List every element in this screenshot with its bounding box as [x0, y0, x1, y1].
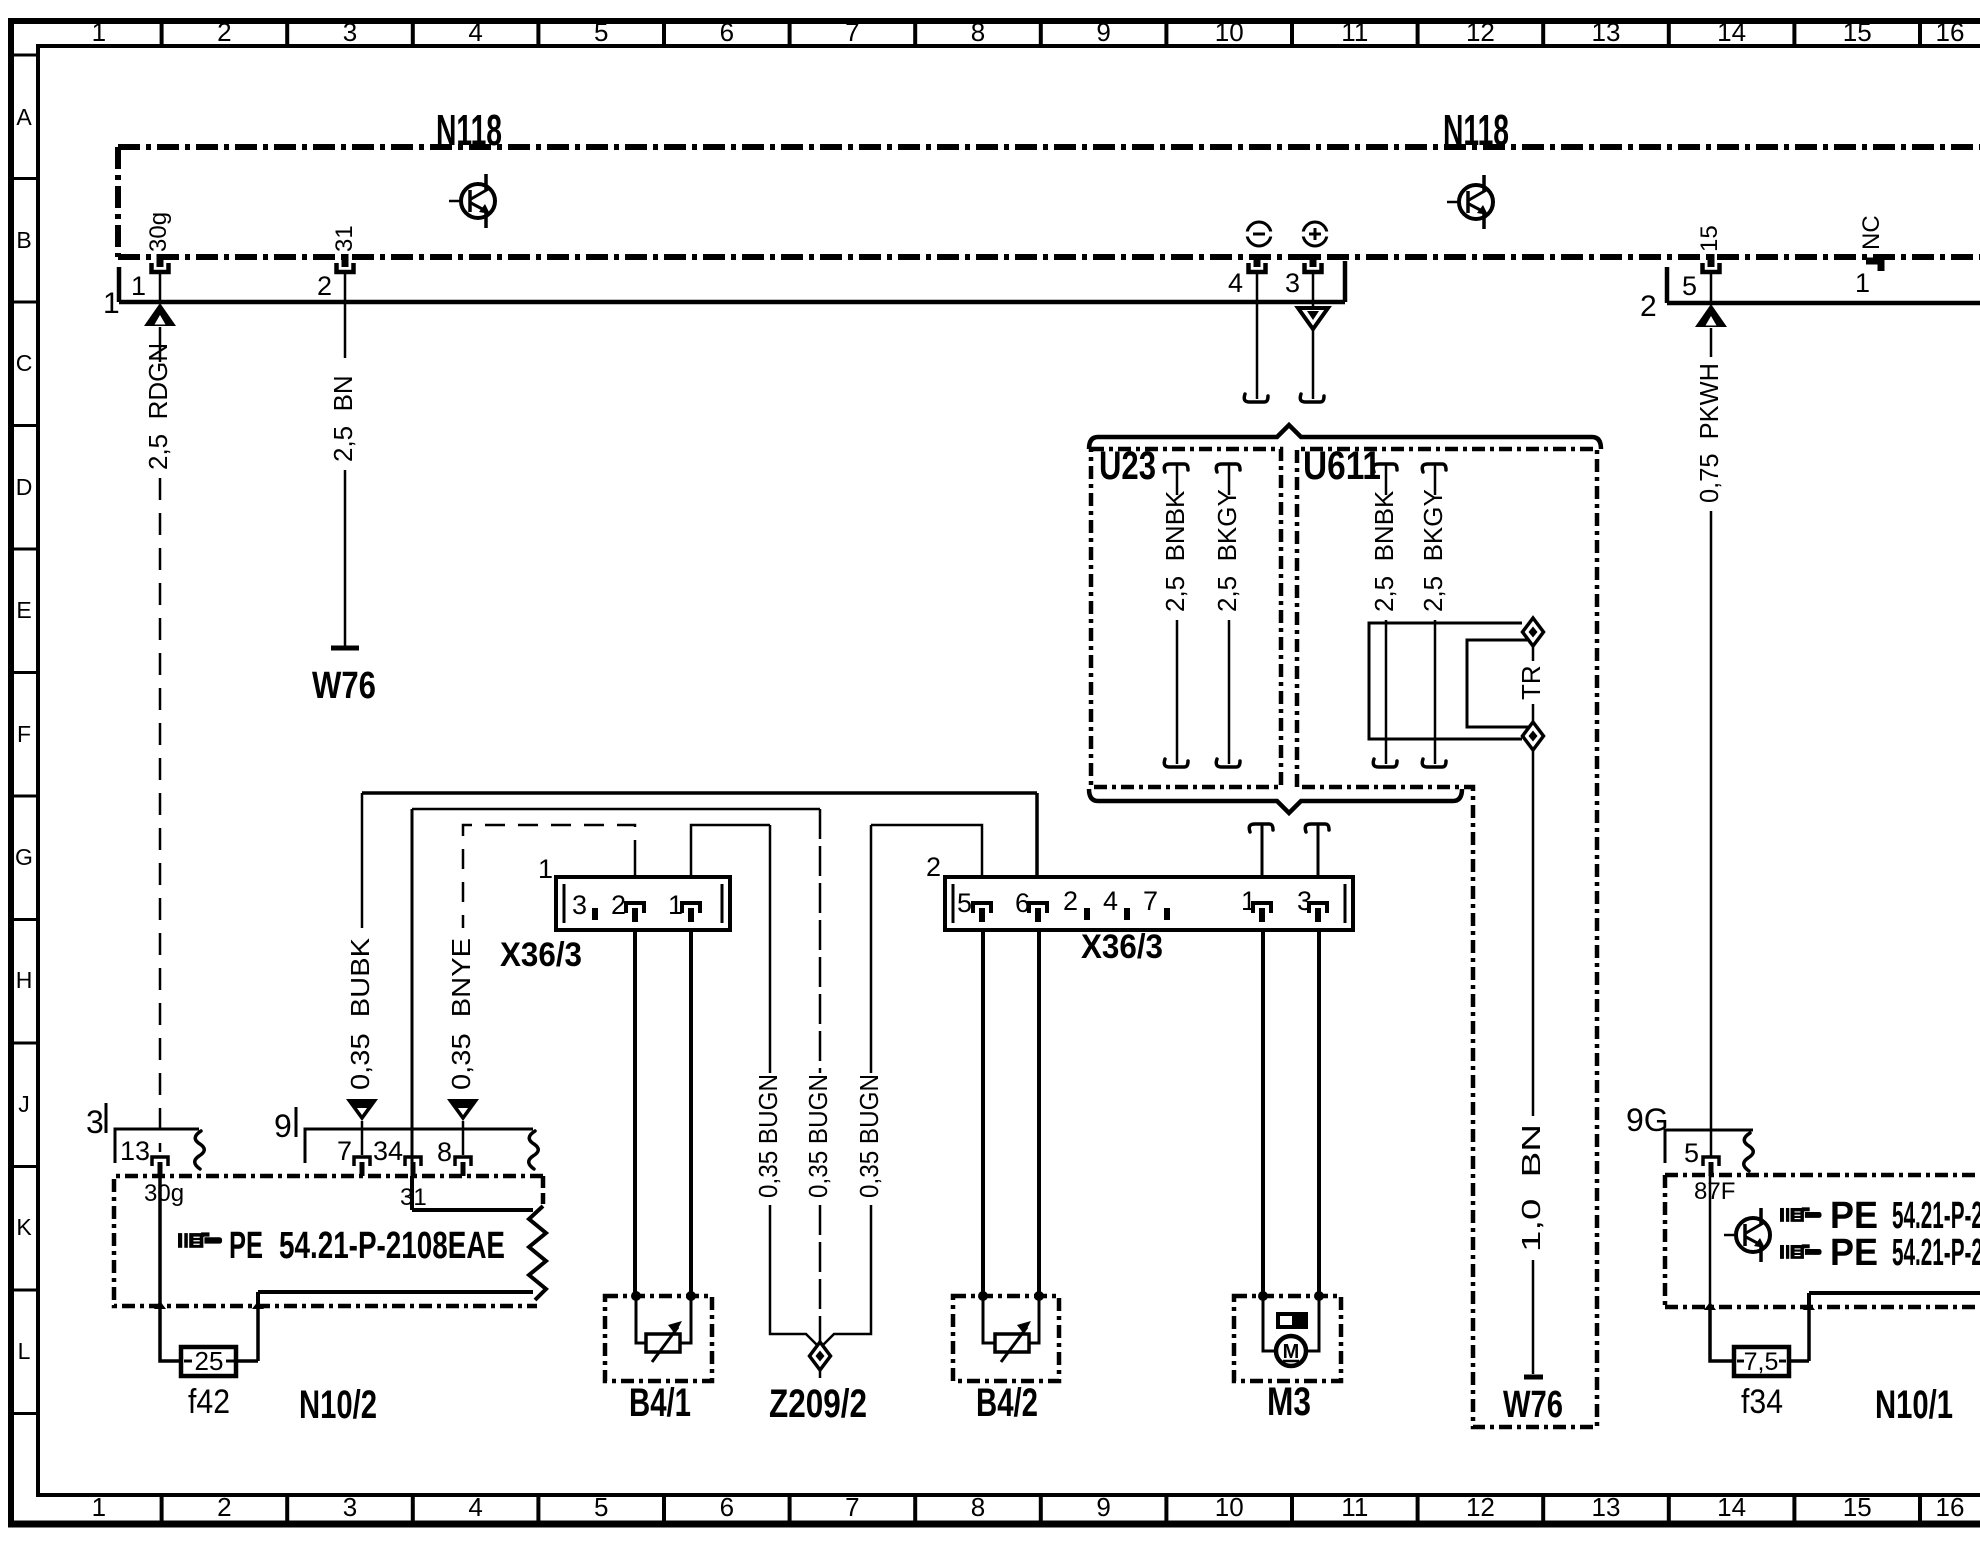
- wire X36/3-2 pin3 down to M3: [1317, 930, 1321, 1296]
- wire from X36/3-2 pin 5 up and over: [871, 825, 982, 877]
- svg-text:U611: U611: [1303, 444, 1381, 488]
- svg-text:A: A: [16, 104, 32, 130]
- wire from pin 3 with connector arrow: [1312, 272, 1315, 307]
- svg-text:E: E: [16, 597, 31, 623]
- wire X36/3-1 pin1 down to B4/1: [689, 930, 693, 1296]
- coupler brace (top) of U23/U611: [1089, 425, 1601, 449]
- 9G bracket: [1665, 1130, 1753, 1163]
- svg-text:2,5 RDGN: 2,5 RDGN: [143, 343, 173, 470]
- pin 3 (+): [1305, 254, 1322, 272]
- BUGN wires converging to Z209/2: [770, 1205, 818, 1346]
- U611 wire 2,5 BKGY: [1422, 464, 1446, 472]
- U23 wire 2,5 BNBK: [1164, 464, 1188, 472]
- svg-text:31: 31: [331, 225, 358, 252]
- connector rail 1 of N118: [119, 261, 1345, 302]
- svg-text:14: 14: [1717, 1492, 1746, 1522]
- wire from X36/3-1 pin 7 path (horizontal feed): [362, 791, 1037, 795]
- wire pin 5 through N10/1: [1709, 1176, 1712, 1307]
- svg-text:10: 10: [1215, 17, 1244, 47]
- wire X36/3-2 pin5 down to B4/2: [981, 930, 985, 1296]
- svg-text:11: 11: [1341, 17, 1368, 47]
- svg-text:2: 2: [1640, 290, 1657, 323]
- column ruler (bottom): [162, 1495, 1920, 1524]
- svg-text:2,5 BNBK: 2,5 BNBK: [1369, 490, 1399, 612]
- svg-text:3: 3: [1285, 268, 1300, 298]
- svg-text:0,35 BUGN: 0,35 BUGN: [854, 1074, 884, 1198]
- fuse f34 box (7,5 A): [1734, 1347, 1789, 1376]
- svg-text:6: 6: [720, 17, 734, 47]
- column ruler (top): [162, 21, 1920, 46]
- svg-text:4: 4: [468, 1492, 482, 1522]
- connector X36/3 (1) box: [556, 877, 730, 930]
- M3 regulator icon: [1276, 1312, 1308, 1329]
- svg-text:J: J: [18, 1091, 30, 1117]
- svg-text:X36/3: X36/3: [500, 936, 582, 974]
- svg-text:9: 9: [274, 1108, 292, 1144]
- solder joint Z209/2 diamond: [810, 1342, 831, 1370]
- svg-text:54.21-P-2108EAE: 54.21-P-2108EAE: [1892, 1195, 1980, 1237]
- svg-text:1: 1: [131, 271, 146, 301]
- svg-text:C: C: [16, 350, 33, 376]
- M3 internal wiring: [1263, 1296, 1319, 1351]
- B4/1 internal variable resistor: [636, 1296, 691, 1362]
- connector X36/3 (2) box: [945, 877, 1353, 930]
- svg-text:K: K: [16, 1214, 32, 1240]
- svg-text:N118: N118: [436, 106, 502, 155]
- B4/2 internal variable resistor: [983, 1296, 1039, 1362]
- svg-text:0,75 PKWH: 0,75 PKWH: [1694, 363, 1724, 503]
- svg-text:12: 12: [1466, 17, 1495, 47]
- svg-text:13: 13: [1592, 17, 1621, 47]
- svg-text:15: 15: [1843, 17, 1872, 47]
- svg-text:13: 13: [1592, 1492, 1621, 1522]
- U611 wire 2,5 BNBK: [1373, 464, 1397, 472]
- pointing hand icon: [178, 1232, 222, 1248]
- M3 motor symbol: [1276, 1336, 1306, 1366]
- wire vertical 0,35 BUBK feed: [361, 793, 364, 928]
- svg-text:3: 3: [572, 890, 587, 920]
- wire vertical to pin 6 of X36/3-2: [1035, 793, 1039, 877]
- internal bus wire N10/1: [1809, 1293, 1980, 1307]
- svg-text:2: 2: [217, 17, 231, 47]
- wire from X36/3-1 pin 1 up and over: [691, 825, 770, 877]
- svg-text:2: 2: [1063, 886, 1078, 916]
- U23 wire 2,5 BKGY: [1216, 464, 1240, 472]
- junction dots on B4/1: [631, 1291, 641, 1301]
- svg-text:11: 11: [1341, 1492, 1368, 1522]
- svg-text:0,35 BNYE: 0,35 BNYE: [446, 938, 476, 1090]
- wire from pin 4: [1256, 272, 1259, 399]
- svg-text:B4/2: B4/2: [976, 1381, 1038, 1425]
- wire 1,0 BN to ground: [1532, 751, 1535, 1116]
- ground terminal W76 (right): [1524, 1375, 1543, 1380]
- svg-text:4: 4: [1103, 886, 1118, 916]
- svg-text:W76: W76: [312, 665, 376, 707]
- svg-text:H: H: [16, 967, 33, 993]
- svg-text:5: 5: [1684, 1138, 1699, 1168]
- svg-text:9: 9: [1096, 17, 1110, 47]
- svg-text:2,5 BNBK: 2,5 BNBK: [1160, 490, 1190, 612]
- svg-text:M3: M3: [1267, 1380, 1311, 1424]
- twisted pair TR outer loop: [1369, 623, 1529, 739]
- svg-text:8: 8: [971, 1492, 985, 1522]
- svg-text:D: D: [16, 474, 33, 500]
- fuse f42 box (25 A): [181, 1347, 236, 1376]
- svg-text:15: 15: [1696, 225, 1723, 252]
- wire pin13 through N10/2: [158, 1176, 162, 1306]
- svg-text:3: 3: [343, 17, 357, 47]
- twisted pair marker (top diamond): [1523, 618, 1544, 646]
- ground W76 (left): [331, 646, 359, 651]
- svg-text:15: 15: [1843, 1492, 1872, 1522]
- svg-text:X36/3: X36/3: [1081, 928, 1163, 966]
- svg-text:9G: 9G: [1626, 1102, 1669, 1138]
- junction dots on B4/2: [978, 1291, 988, 1301]
- connection symbol inside N10/1: [1724, 1208, 1770, 1262]
- svg-text:87F: 87F: [1694, 1178, 1735, 1205]
- internal bus wire to torn edge: [258, 1290, 533, 1294]
- svg-text:7: 7: [337, 1136, 352, 1166]
- wires from U611 outputs to X36/3 (2) pins 1,3: [1249, 824, 1273, 832]
- svg-text:1: 1: [538, 854, 553, 884]
- svg-text:L: L: [18, 1338, 31, 1364]
- pin 5 (15): [1703, 254, 1720, 272]
- svg-text:8: 8: [437, 1137, 452, 1167]
- svg-text:7: 7: [845, 1492, 859, 1522]
- svg-text:PE: PE: [1830, 1195, 1878, 1237]
- svg-text:1,0 BN: 1,0 BN: [1516, 1124, 1546, 1252]
- pin 1 (30g): [152, 254, 169, 272]
- svg-text:N10/1: N10/1: [1875, 1383, 1953, 1427]
- twisted pair marker (bottom diamond): [1523, 722, 1544, 750]
- fuse f42 loop: [160, 1306, 181, 1361]
- svg-text:2: 2: [926, 852, 941, 882]
- svg-text:5: 5: [957, 888, 972, 918]
- svg-text:NC: NC: [1858, 215, 1885, 250]
- svg-text:1: 1: [92, 17, 106, 47]
- wire pin34 to torn edge: [412, 1176, 533, 1210]
- connection symbol inside N118 (left): [449, 174, 495, 228]
- svg-text:PE: PE: [1830, 1232, 1878, 1274]
- svg-text:12: 12: [1466, 1492, 1495, 1522]
- svg-text:0,35 BUGN: 0,35 BUGN: [803, 1074, 833, 1198]
- junction marks at N10/2 bottom: [154, 1301, 166, 1309]
- control unit N10/1 dash-dot box: [1665, 1175, 1980, 1307]
- svg-text:25: 25: [195, 1346, 224, 1376]
- svg-text:5: 5: [594, 1492, 608, 1522]
- row ruler (left letters): [11, 55, 38, 1414]
- svg-text:30g: 30g: [144, 1180, 184, 1207]
- control unit N118 dash-dot boundary: [118, 147, 1980, 257]
- svg-text:2: 2: [611, 890, 626, 920]
- svg-text:0,35 BUGN: 0,35 BUGN: [753, 1074, 783, 1198]
- pin 1 (NC): [1866, 261, 1881, 271]
- sensor B4/1 dashed box: [605, 1296, 712, 1381]
- wire X36/3-2 pin6 down to B4/2: [1037, 930, 1041, 1296]
- svg-text:1: 1: [92, 1492, 106, 1522]
- minus terminal symbol: [1244, 222, 1274, 246]
- svg-text:N10/2: N10/2: [299, 1383, 377, 1427]
- TR link wire and label: [1532, 647, 1535, 661]
- svg-text:PE: PE: [229, 1225, 263, 1267]
- plus terminal symbol: [1300, 222, 1330, 246]
- pointing hand icon 1: [1780, 1207, 1822, 1222]
- blower motor M3 dashed box: [1234, 1296, 1341, 1381]
- wire 2,5 RDGN from pin 1: [159, 272, 162, 302]
- svg-text:Z209/2: Z209/2: [769, 1382, 867, 1426]
- svg-text:4: 4: [1228, 268, 1243, 298]
- connector U23 dash-dot box: [1091, 449, 1281, 787]
- pointing hand icon 2: [1780, 1244, 1822, 1259]
- arrow to pin 8: [447, 1099, 479, 1121]
- svg-text:M: M: [1283, 1341, 1300, 1363]
- svg-text:5: 5: [1682, 271, 1697, 301]
- wire 0,75 PKWH from pin 5: [1710, 272, 1713, 303]
- svg-text:5: 5: [594, 17, 608, 47]
- svg-text:10: 10: [1215, 1492, 1244, 1522]
- svg-text:54.21-P-2108EAE: 54.21-P-2108EAE: [1892, 1232, 1980, 1274]
- svg-text:14: 14: [1717, 17, 1746, 47]
- svg-text:2,5 BN: 2,5 BN: [328, 375, 358, 462]
- connector rail 2 of N118: [1667, 267, 1980, 303]
- N10/2 torn edge: [529, 1206, 546, 1300]
- svg-text:30g: 30g: [145, 212, 172, 252]
- svg-text:8: 8: [971, 17, 985, 47]
- pin 4 (-): [1249, 254, 1266, 272]
- svg-text:7: 7: [1143, 886, 1158, 916]
- dashed middle BUGN wire: [819, 809, 822, 1073]
- svg-text:2: 2: [217, 1492, 231, 1522]
- pin 2 (31): [337, 254, 354, 272]
- svg-text:U23: U23: [1099, 444, 1156, 488]
- sensor B4/2 dashed box: [953, 1296, 1059, 1381]
- svg-text:9: 9: [1096, 1492, 1110, 1522]
- svg-text:4: 4: [468, 17, 482, 47]
- svg-text:7,5: 7,5: [1744, 1348, 1779, 1376]
- svg-text:N118: N118: [1443, 106, 1509, 155]
- svg-text:W76: W76: [1503, 1384, 1563, 1426]
- svg-text:f42: f42: [188, 1383, 230, 1421]
- control unit N10/2 dash-dot box: [114, 1176, 543, 1306]
- svg-text:1: 1: [103, 287, 120, 320]
- connector U611 + W76 duct dash-dot outline: [1297, 449, 1597, 1427]
- arrow to pin 7: [346, 1099, 378, 1121]
- svg-text:F: F: [17, 721, 31, 747]
- svg-text:B: B: [16, 227, 31, 253]
- junction dots on M3: [1258, 1291, 1268, 1301]
- svg-text:0,35 BUBK: 0,35 BUBK: [345, 937, 375, 1090]
- svg-text:G: G: [15, 844, 33, 870]
- svg-text:16: 16: [1936, 17, 1965, 47]
- svg-text:3: 3: [343, 1492, 357, 1522]
- svg-text:B4/1: B4/1: [629, 1381, 691, 1425]
- svg-text:3: 3: [86, 1104, 104, 1140]
- svg-text:13: 13: [120, 1136, 150, 1166]
- svg-text:6: 6: [720, 1492, 734, 1522]
- junction marks at N10/1 bottom: [1704, 1302, 1716, 1310]
- wire X36/3-1 pin2 down to B4/1: [633, 930, 637, 1296]
- svg-text:2,5 BKGY: 2,5 BKGY: [1418, 489, 1448, 612]
- svg-text:1: 1: [1855, 268, 1870, 298]
- svg-text:16: 16: [1936, 1492, 1965, 1522]
- wire vertical pin 34 feed: [411, 809, 414, 1210]
- svg-text:34: 34: [373, 1136, 403, 1166]
- svg-text:2: 2: [317, 271, 332, 301]
- coupler brace (bottom) of U23/U611: [1089, 789, 1462, 813]
- svg-text:f34: f34: [1741, 1383, 1783, 1421]
- connection symbol inside N118 (right): [1447, 175, 1493, 229]
- wire horizontal to Z209/2 middle: [412, 808, 820, 811]
- dashed wire 0,35 BNYE from X36/3-1 pin 2: [634, 860, 637, 877]
- wire X36/3-2 pin1 down to M3: [1261, 930, 1265, 1296]
- svg-text:TR: TR: [1516, 665, 1546, 700]
- fuse f34 loop: [1710, 1307, 1734, 1361]
- wire 2,5 BN from pin 2: [344, 272, 347, 358]
- svg-text:54.21-P-2108EAE: 54.21-P-2108EAE: [279, 1225, 505, 1267]
- svg-text:7: 7: [845, 17, 859, 47]
- svg-text:2,5 BKGY: 2,5 BKGY: [1212, 489, 1242, 612]
